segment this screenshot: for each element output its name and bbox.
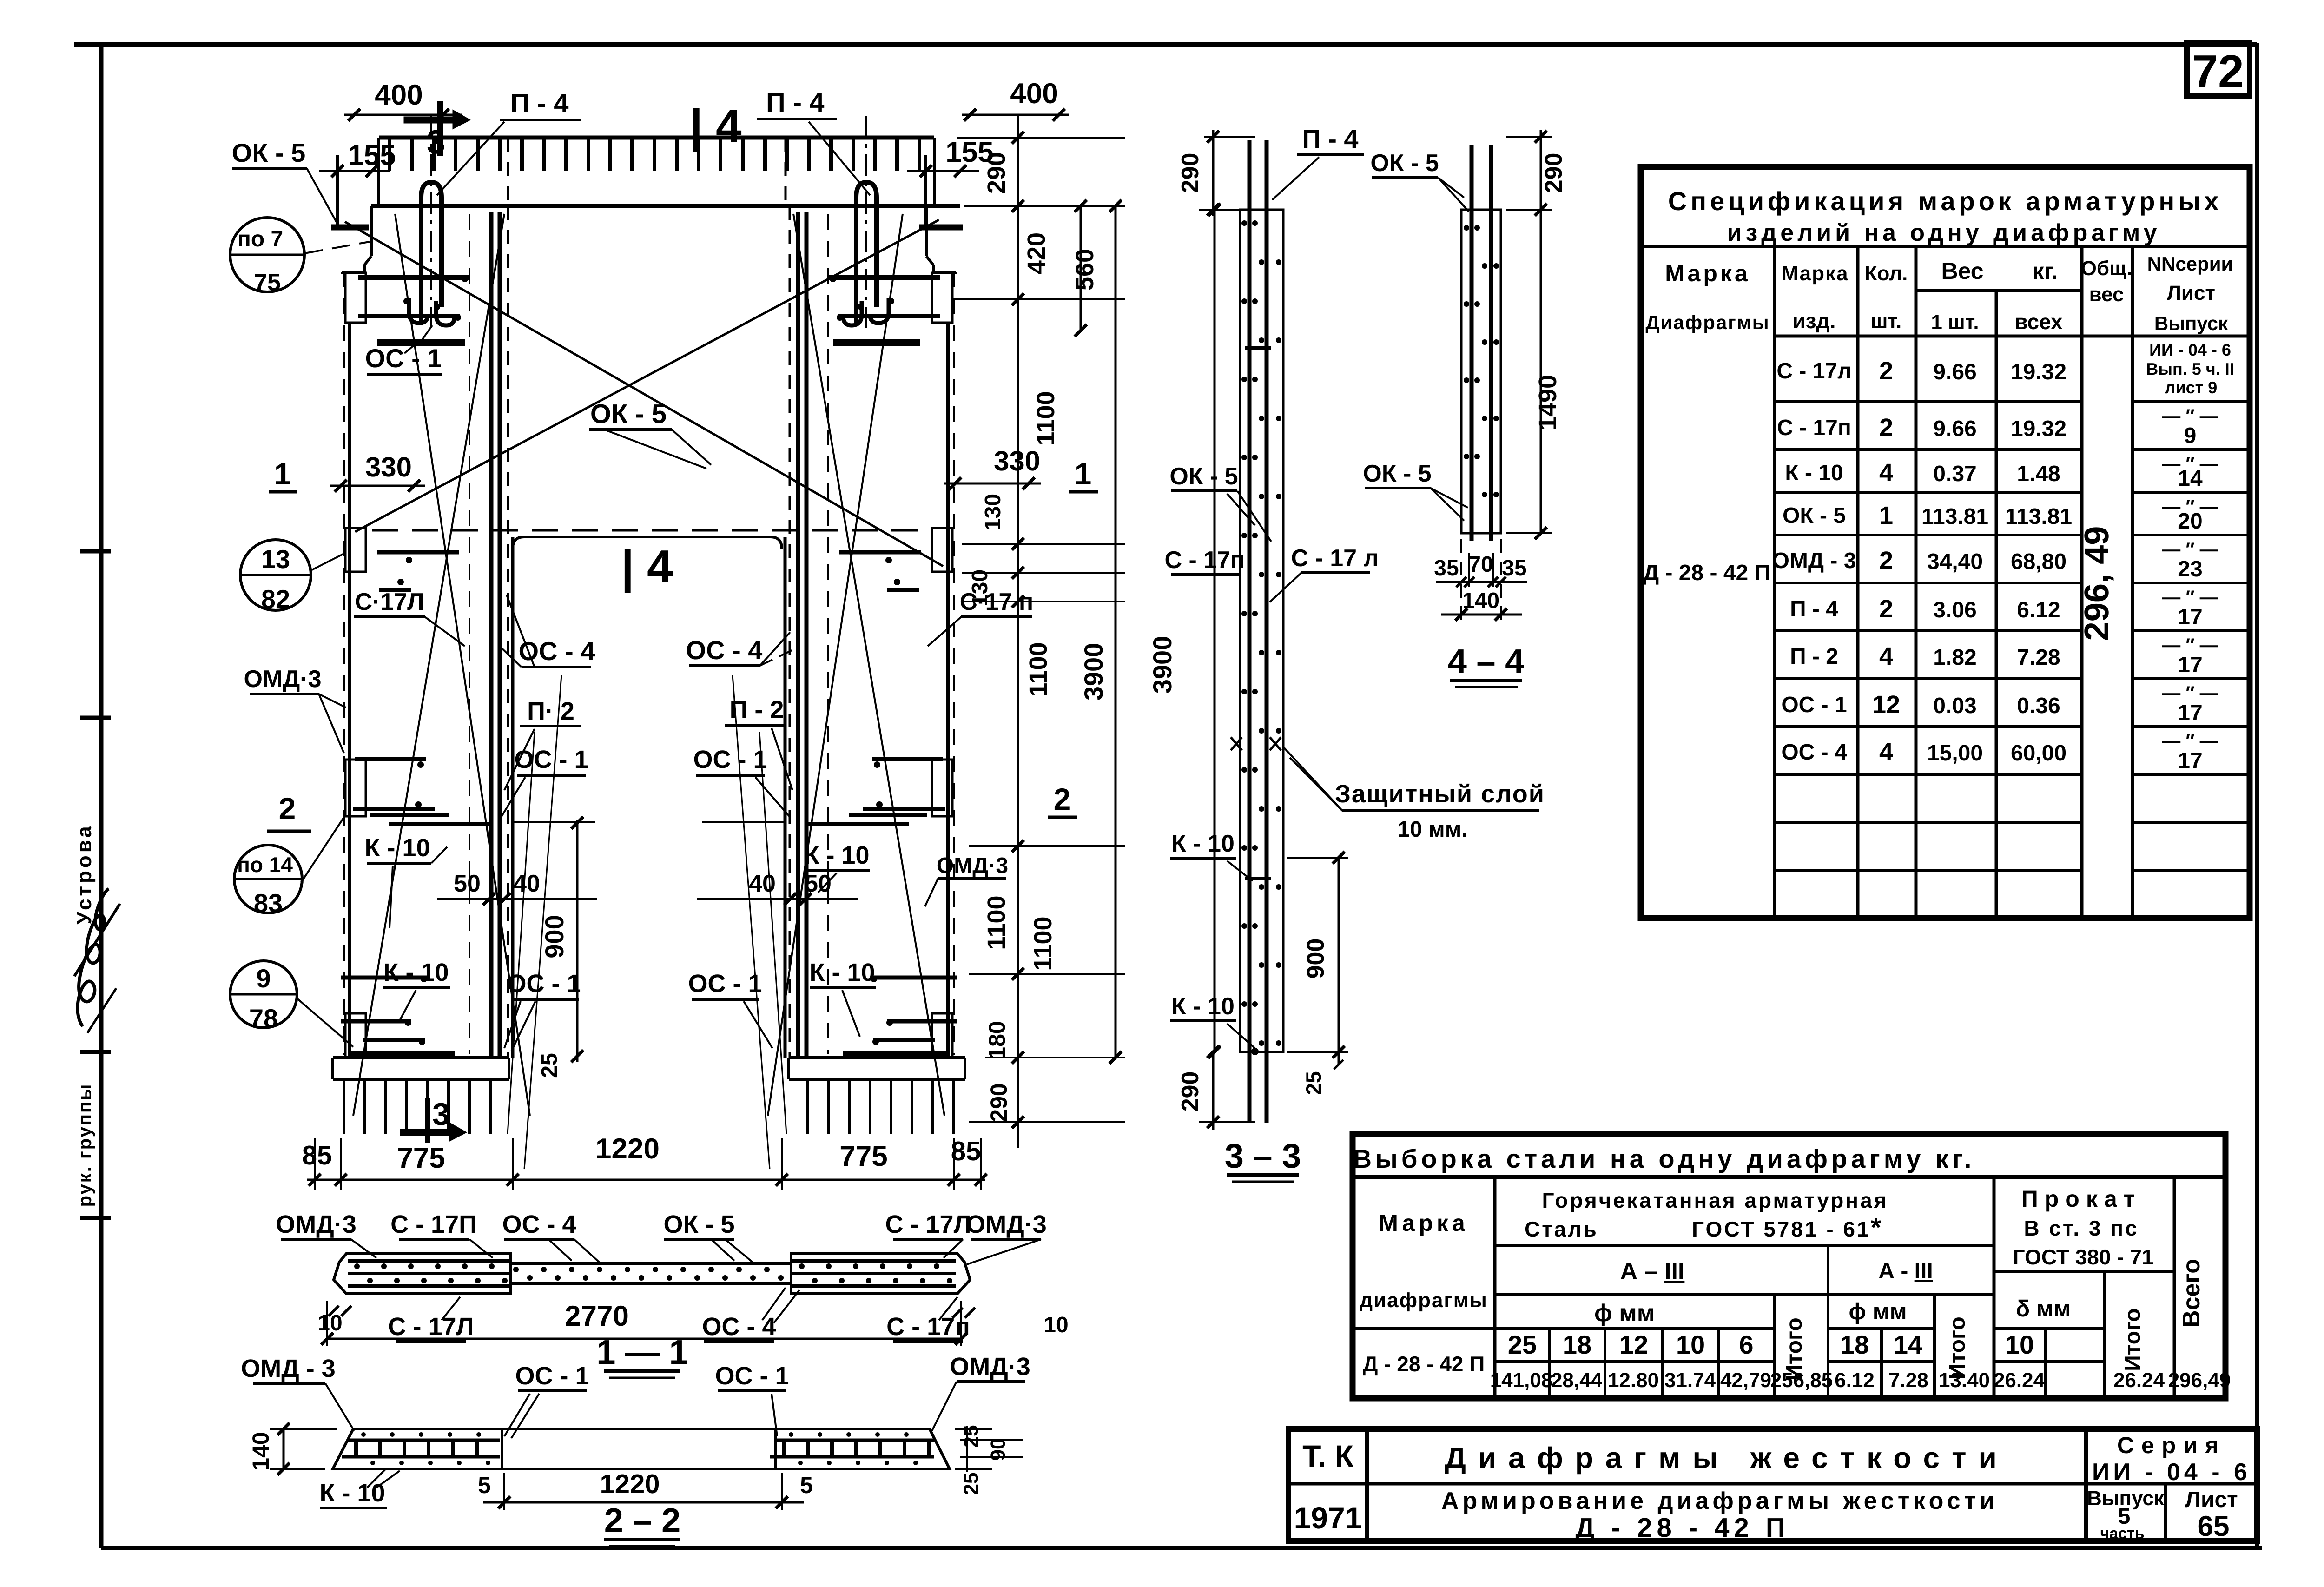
svg-text:П - 4: П - 4 [766, 87, 825, 118]
svg-text:Вып. 5 ч. II: Вып. 5 ч. II [2146, 359, 2234, 378]
svg-text:К - 10: К - 10 [319, 1479, 385, 1507]
svg-text:1971: 1971 [1294, 1501, 1362, 1535]
svg-text:Серия: Серия [2117, 1432, 2226, 1458]
svg-text:П - 4: П - 4 [510, 88, 569, 119]
svg-text:лист 9: лист 9 [2165, 378, 2218, 397]
svg-text:ОС - 1: ОС - 1 [365, 344, 442, 373]
svg-text:290: 290 [983, 152, 1010, 194]
svg-text:0.37: 0.37 [1933, 462, 1976, 486]
svg-text:по 14: по 14 [237, 853, 293, 877]
svg-text:83: 83 [254, 888, 283, 918]
svg-text:ОС - 1: ОС - 1 [515, 1362, 589, 1390]
svg-text:Диафрагмы жесткости: Диафрагмы жесткости [1445, 1441, 2009, 1475]
svg-text:Диафрагмы: Диафрагмы [1645, 311, 1769, 333]
svg-text:18: 18 [1563, 1330, 1591, 1359]
svg-text:82: 82 [261, 584, 290, 614]
svg-text:ОМД·3: ОМД·3 [937, 853, 1008, 878]
svg-text:ИИ - 04 - 6: ИИ - 04 - 6 [2149, 340, 2231, 359]
svg-text:ϕ мм: ϕ мм [1849, 1298, 1907, 1324]
svg-text:10 мм.: 10 мм. [1397, 817, 1467, 842]
svg-text:| 4: | 4 [690, 100, 742, 152]
svg-text:85: 85 [951, 1136, 981, 1166]
svg-text:часть: часть [2100, 1525, 2144, 1542]
svg-text:85: 85 [302, 1140, 332, 1170]
svg-text:68,80: 68,80 [2011, 549, 2067, 574]
svg-text:4: 4 [1879, 459, 1893, 487]
svg-text:Выборка стали на одну диаф: Выборка стали на одну диафрагму кг. [1353, 1144, 1975, 1173]
svg-text:256,85: 256,85 [1770, 1369, 1833, 1392]
svg-text:290: 290 [1177, 1071, 1204, 1112]
svg-text:290: 290 [986, 1083, 1012, 1122]
svg-text:ОС - 1: ОС - 1 [514, 746, 588, 774]
svg-text:ОМД·3: ОМД·3 [276, 1210, 356, 1238]
svg-text:900: 900 [1302, 939, 1329, 979]
svg-text:42,79: 42,79 [1720, 1369, 1771, 1392]
svg-text:6.12: 6.12 [1835, 1369, 1875, 1392]
svg-text:1.82: 1.82 [1933, 645, 1976, 670]
svg-text:7.28: 7.28 [1888, 1369, 1928, 1392]
svg-text:7.28: 7.28 [2017, 645, 2060, 670]
svg-text:Т. К: Т. К [1302, 1439, 1354, 1473]
svg-text:2 – 2: 2 – 2 [604, 1501, 681, 1540]
svg-text:4: 4 [1879, 738, 1893, 766]
svg-text:2: 2 [1054, 782, 1071, 816]
svg-text:П· 2: П· 2 [527, 697, 574, 725]
svg-text:кг.: кг. [2033, 258, 2058, 284]
svg-text:4: 4 [1879, 642, 1893, 670]
svg-text:26.24: 26.24 [2113, 1369, 2165, 1392]
svg-text:ГОСТ 5781 - 61*: ГОСТ 5781 - 61* [1692, 1212, 1883, 1243]
svg-text:диафрагмы: диафрагмы [1360, 1289, 1488, 1312]
svg-text:Итого: Итого [2120, 1308, 2145, 1371]
svg-text:рук. группы: рук. группы [75, 1083, 95, 1207]
svg-text:9.66: 9.66 [1933, 417, 1976, 441]
svg-text:775: 775 [839, 1140, 887, 1172]
svg-text:2: 2 [1879, 414, 1893, 442]
svg-text:17: 17 [2178, 748, 2202, 773]
svg-text:К - 10: К - 10 [1785, 461, 1843, 485]
svg-text:NNсерии: NNсерии [2147, 253, 2233, 275]
svg-text:17: 17 [2178, 701, 2202, 725]
svg-text:С - 17п: С - 17п [1164, 547, 1245, 574]
svg-text:Общ.: Общ. [2081, 257, 2133, 280]
svg-text:10: 10 [1043, 1313, 1068, 1337]
svg-text:330: 330 [365, 451, 412, 483]
svg-text:155: 155 [348, 139, 396, 172]
svg-text:Д - 28 - 42 П: Д - 28 - 42 П [1575, 1513, 1789, 1543]
svg-text:Всего: Всего [2178, 1259, 2205, 1328]
svg-text:ИИ - 04 - 6: ИИ - 04 - 6 [2092, 1459, 2251, 1486]
svg-text:72: 72 [2192, 46, 2244, 98]
svg-text:35: 35 [1502, 556, 1526, 581]
svg-text:6: 6 [1739, 1330, 1753, 1359]
svg-text:ОС - 1: ОС - 1 [693, 746, 767, 774]
svg-text:Кол.: Кол. [1865, 262, 1908, 285]
svg-text:26.24: 26.24 [1994, 1369, 2045, 1392]
svg-text:9: 9 [256, 964, 271, 993]
svg-text:П - 4: П - 4 [1302, 124, 1358, 153]
svg-text:Армирование диафрагмы жест: Армирование диафрагмы жесткости [1441, 1488, 1998, 1514]
svg-text:0.36: 0.36 [2017, 694, 2060, 718]
svg-text:по 7: по 7 [238, 227, 283, 251]
svg-text:ОС - 4: ОС - 4 [502, 1210, 576, 1238]
svg-text:С - 17л: С - 17л [1776, 359, 1851, 384]
svg-text:ОМД - 3: ОМД - 3 [1772, 549, 1856, 573]
svg-text:18: 18 [1840, 1330, 1869, 1359]
svg-text:78: 78 [249, 1004, 278, 1033]
svg-text:17: 17 [2178, 653, 2202, 677]
svg-text:19.32: 19.32 [2011, 417, 2067, 441]
svg-text:14: 14 [1894, 1330, 1922, 1359]
svg-text:20: 20 [2178, 509, 2202, 534]
svg-text:4 – 4: 4 – 4 [1448, 642, 1525, 681]
svg-text:296,49: 296,49 [2168, 1369, 2231, 1392]
svg-text:28,44: 28,44 [1551, 1369, 1603, 1392]
svg-text:ОК - 5: ОК - 5 [1783, 503, 1846, 528]
svg-text:180: 180 [984, 1021, 1010, 1059]
svg-text:Горячекатанная арматурная: Горячекатанная арматурная [1542, 1188, 1888, 1212]
svg-text:ОС - 4: ОС - 4 [1781, 740, 1847, 765]
svg-text:Вес: Вес [1941, 258, 1983, 284]
svg-text:К - 10: К - 10 [809, 959, 875, 986]
svg-text:С - 17п: С - 17п [886, 1313, 970, 1341]
svg-text:23: 23 [2178, 557, 2202, 582]
svg-text:2: 2 [279, 791, 296, 826]
svg-text:вес: вес [2089, 283, 2124, 306]
svg-text:12.80: 12.80 [1608, 1369, 1659, 1392]
svg-text:560: 560 [1071, 249, 1099, 291]
svg-text:ОК - 5: ОК - 5 [664, 1210, 735, 1238]
svg-text:А – III: А – III [1620, 1258, 1685, 1285]
svg-text:13.40: 13.40 [1939, 1369, 1990, 1392]
svg-text:К - 10: К - 10 [383, 959, 449, 986]
svg-text:140: 140 [1462, 589, 1499, 613]
svg-text:10: 10 [1676, 1330, 1705, 1359]
svg-text:2: 2 [1879, 357, 1893, 385]
svg-text:К - 10: К - 10 [1171, 830, 1235, 857]
svg-text:34,40: 34,40 [1927, 549, 1983, 574]
svg-text:δ мм: δ мм [2016, 1296, 2071, 1322]
svg-text:31.74: 31.74 [1664, 1369, 1716, 1392]
svg-text:290: 290 [1177, 153, 1204, 193]
svg-text:70: 70 [1468, 552, 1493, 577]
svg-text:35: 35 [1434, 556, 1459, 581]
svg-text:3900: 3900 [1148, 636, 1177, 694]
svg-text:12: 12 [1872, 691, 1900, 719]
svg-text:ОМД·3: ОМД·3 [244, 666, 321, 693]
svg-text:ОК - 5: ОК - 5 [1363, 460, 1431, 487]
svg-text:изд.: изд. [1792, 309, 1835, 333]
svg-text:5: 5 [800, 1472, 813, 1498]
svg-text:1220: 1220 [595, 1133, 660, 1165]
svg-text:0.03: 0.03 [1933, 694, 1976, 718]
svg-text:Д - 28 - 42 П: Д - 28 - 42 П [1643, 561, 1770, 585]
svg-text:400: 400 [1010, 78, 1058, 110]
svg-text:3: 3 [427, 124, 445, 161]
svg-text:19.32: 19.32 [2011, 360, 2067, 384]
svg-text:296, 49: 296, 49 [2077, 526, 2116, 641]
svg-text:1 шт.: 1 шт. [1931, 311, 1979, 334]
svg-text:1100: 1100 [1032, 391, 1060, 445]
svg-text:9: 9 [2184, 423, 2197, 448]
svg-text:1: 1 [1879, 502, 1893, 529]
svg-text:2: 2 [1879, 547, 1893, 575]
svg-text:900: 900 [540, 915, 569, 958]
svg-text:изделий на одну диафрагму: изделий на одну диафрагму [1727, 219, 2160, 246]
svg-text:40: 40 [513, 870, 540, 897]
svg-text:Выпуск: Выпуск [2154, 312, 2228, 334]
svg-text:всех: всех [2014, 310, 2063, 334]
svg-text:2770: 2770 [565, 1300, 629, 1332]
svg-text:1100: 1100 [983, 895, 1010, 950]
svg-text:Сталь: Сталь [1525, 1217, 1598, 1241]
svg-text:Марка: Марка [1665, 260, 1750, 286]
svg-text:75: 75 [254, 269, 281, 296]
svg-text:Д - 28 - 42 П: Д - 28 - 42 П [1363, 1352, 1485, 1376]
svg-text:10: 10 [2005, 1330, 2034, 1359]
svg-text:Спецификация марок арматурны: Спецификация марок арматурных [1668, 186, 2222, 216]
svg-text:1220: 1220 [600, 1469, 660, 1499]
svg-text:К - 10: К - 10 [1171, 993, 1235, 1020]
svg-text:С - 17Л: С - 17Л [885, 1210, 971, 1238]
svg-text:13: 13 [261, 544, 290, 574]
svg-text:С·17Л: С·17Л [355, 589, 424, 615]
svg-text:ОМД - 3: ОМД - 3 [241, 1355, 335, 1382]
svg-text:50: 50 [805, 870, 832, 897]
svg-text:2: 2 [1879, 595, 1893, 623]
svg-text:5: 5 [478, 1472, 491, 1498]
svg-text:К - 10: К - 10 [804, 841, 869, 869]
svg-text:113.81: 113.81 [1921, 504, 1988, 529]
svg-text:шт.: шт. [1871, 310, 1902, 333]
svg-text:ОС - 4: ОС - 4 [686, 635, 763, 665]
svg-text:420: 420 [1023, 232, 1050, 274]
svg-text:ОМД·3: ОМД·3 [966, 1210, 1046, 1238]
svg-text:3 – 3: 3 – 3 [1225, 1137, 1301, 1175]
svg-text:12: 12 [1619, 1330, 1648, 1359]
svg-text:С - 17П: С - 17П [390, 1210, 477, 1238]
svg-text:С - 17Л: С - 17Л [388, 1313, 474, 1341]
svg-text:1100: 1100 [1029, 916, 1057, 971]
svg-text:С - 17 л: С - 17 л [1291, 545, 1379, 572]
svg-text:3.06: 3.06 [1933, 598, 1976, 622]
svg-text:ОМД·3: ОМД·3 [950, 1353, 1030, 1381]
svg-text:141,08: 141,08 [1490, 1369, 1553, 1392]
svg-text:П - 2: П - 2 [730, 696, 784, 724]
svg-text:ОС - 4: ОС - 4 [519, 636, 595, 666]
svg-text:Устрова: Устрова [73, 823, 96, 924]
svg-text:9.66: 9.66 [1933, 360, 1976, 384]
svg-text:ϕ мм: ϕ мм [1594, 1300, 1655, 1327]
svg-text:П - 4: П - 4 [1790, 597, 1838, 622]
svg-text:Марка: Марка [1379, 1210, 1468, 1236]
svg-text:Марка: Марка [1781, 262, 1849, 285]
svg-text:ОК - 5: ОК - 5 [232, 138, 306, 167]
svg-text:Лист: Лист [2167, 282, 2215, 304]
svg-text:ОК - 5: ОК - 5 [1169, 463, 1238, 490]
svg-text:К - 10: К - 10 [364, 834, 430, 862]
svg-text:ОС - 1: ОС - 1 [688, 970, 762, 998]
svg-text:130: 130 [981, 494, 1005, 531]
svg-text:Защитный слой: Защитный слой [1335, 780, 1545, 808]
svg-text:В ст. 3 пс: В ст. 3 пс [2024, 1216, 2139, 1240]
svg-text:65: 65 [2198, 1510, 2230, 1542]
svg-text:1: 1 [1075, 456, 1092, 491]
svg-text:С - 17п: С - 17п [1777, 416, 1851, 440]
svg-text:50: 50 [454, 870, 481, 897]
svg-text:1490: 1490 [1534, 375, 1562, 430]
svg-text:П - 2: П - 2 [1790, 644, 1838, 669]
svg-text:Лист: Лист [2185, 1488, 2238, 1512]
svg-text:60,00: 60,00 [2011, 741, 2067, 766]
svg-text:ОК - 5: ОК - 5 [1370, 150, 1439, 177]
svg-text:14: 14 [2178, 466, 2203, 491]
svg-text:140: 140 [248, 1432, 274, 1470]
svg-text:290: 290 [1540, 153, 1567, 193]
svg-text:1.48: 1.48 [2017, 462, 2060, 486]
svg-text:113.81: 113.81 [2005, 504, 2072, 529]
svg-text:25: 25 [960, 1473, 983, 1495]
svg-text:25: 25 [537, 1053, 562, 1078]
svg-text:| 4: | 4 [621, 541, 673, 593]
svg-text:ГОСТ 380 - 71: ГОСТ 380 - 71 [2013, 1245, 2154, 1269]
svg-text:400: 400 [375, 79, 423, 111]
svg-text:17: 17 [2178, 605, 2202, 629]
svg-text:1: 1 [274, 456, 291, 491]
svg-text:А - III: А - III [1878, 1259, 1933, 1283]
svg-text:ОС - 1: ОС - 1 [715, 1362, 789, 1390]
svg-text:Прокат: Прокат [2021, 1186, 2141, 1212]
svg-text:1100: 1100 [1024, 642, 1052, 696]
svg-text:6.12: 6.12 [2017, 598, 2060, 622]
svg-text:ОК - 5: ОК - 5 [590, 399, 667, 429]
svg-text:3900: 3900 [1079, 643, 1108, 701]
svg-text:25: 25 [1301, 1071, 1326, 1095]
svg-text:1 — 1: 1 — 1 [596, 1333, 688, 1371]
svg-text:775: 775 [397, 1142, 445, 1174]
svg-text:25: 25 [1508, 1330, 1537, 1359]
svg-text:ОС - 1: ОС - 1 [1781, 693, 1847, 717]
svg-text:15,00: 15,00 [1927, 741, 1983, 766]
svg-text:40: 40 [749, 870, 776, 897]
svg-text:ОС - 1: ОС - 1 [507, 970, 581, 998]
